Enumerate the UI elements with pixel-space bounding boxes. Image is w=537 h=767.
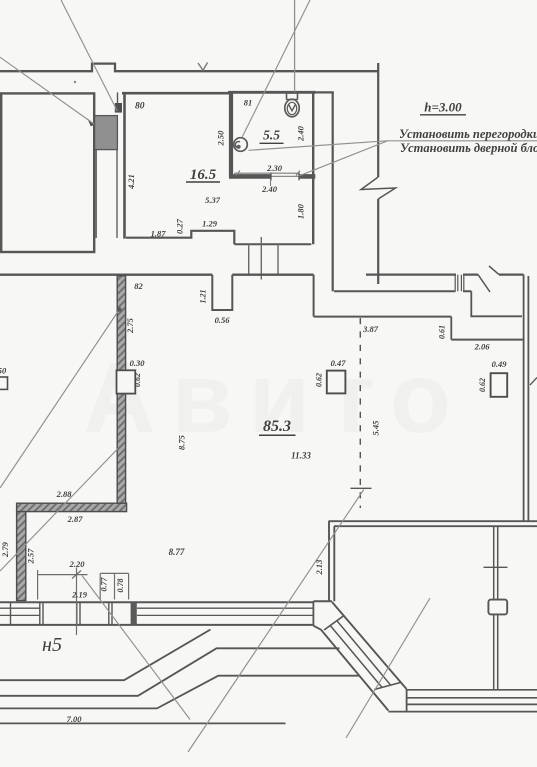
room 16.5 bottom wall with step	[126, 231, 234, 244]
text leader shelf	[387, 140, 537, 142]
step line P4 bottom	[0, 722, 286, 724]
right exterior wall double	[524, 275, 529, 521]
thick hatched wall vertical lower left	[17, 512, 26, 601]
dim line 2.30	[234, 171, 300, 176]
svg-text:2.75: 2.75	[125, 317, 135, 334]
svg-text:1.21: 1.21	[199, 290, 208, 304]
leader to sink from top	[242, 0, 310, 137]
svg-text:5.45: 5.45	[371, 420, 381, 436]
svg-text:3.87: 3.87	[362, 324, 379, 334]
dim bracket left tick	[37, 570, 39, 600]
svg-text:Установить дверной блок: Установить дверной блок	[400, 141, 537, 155]
leader text to sink	[249, 141, 388, 151]
interior partition break tick	[484, 566, 508, 568]
mullion solid block	[131, 602, 137, 625]
svg-text:80: 80	[135, 102, 145, 112]
toilet bowl inner	[287, 102, 296, 114]
svg-text:0.27: 0.27	[175, 218, 185, 234]
toilet bowl	[285, 99, 299, 117]
svg-text:Установить перегородки: Установить перегородки	[399, 127, 537, 141]
svg-text:0.62: 0.62	[478, 378, 487, 392]
wall channel lines	[96, 150, 117, 238]
svg-text:1.80: 1.80	[296, 203, 306, 219]
svg-text:2.06: 2.06	[474, 341, 491, 351]
dim cross tick	[72, 568, 81, 636]
svg-text:2.30: 2.30	[266, 163, 283, 173]
svg-text:7.00: 7.00	[67, 714, 83, 724]
step line P1	[0, 630, 211, 681]
note underline	[420, 114, 466, 116]
svg-text:0.56: 0.56	[215, 315, 231, 325]
leader dot on wall	[117, 307, 122, 312]
svg-text:11.33: 11.33	[291, 451, 311, 461]
svg-text:0.47: 0.47	[331, 358, 347, 368]
bay lower cut line	[374, 683, 400, 690]
bay upper cut line	[324, 616, 344, 630]
svg-text:2.79: 2.79	[0, 541, 10, 558]
svg-text:2.87: 2.87	[67, 514, 84, 524]
main long wall	[0, 274, 314, 276]
toilet tank	[287, 93, 298, 100]
room 85.3 underline	[259, 434, 296, 436]
svg-text:8.77: 8.77	[169, 547, 185, 557]
right band outer line	[366, 274, 524, 276]
bay diagonal band line1	[332, 602, 407, 689]
svg-text:0.62: 0.62	[133, 373, 142, 387]
svg-text:81: 81	[244, 98, 253, 108]
sink inner mark	[235, 142, 240, 148]
bay diagonal band line3	[330, 626, 382, 688]
left window band outer lines	[0, 602, 313, 625]
leader A steps	[82, 576, 190, 720]
leader to wall from top left 2	[61, 0, 117, 111]
niche 0.56	[212, 275, 232, 310]
wall fill between rooms (dark gray)	[95, 116, 118, 150]
svg-text:2.40: 2.40	[261, 184, 278, 194]
tick on right wall	[530, 378, 537, 386]
bathroom door jamb ticks	[271, 172, 299, 180]
svg-text:2.40: 2.40	[296, 125, 306, 142]
bay lower post end edge	[406, 689, 408, 712]
door block 0.47	[327, 371, 346, 394]
window mullions	[11, 602, 113, 625]
thick hatched wall vertical long	[117, 276, 125, 503]
leader C bottom right	[346, 598, 430, 738]
room 16.5 underline	[186, 181, 220, 183]
top wall inner segment right of bathroom	[316, 91, 334, 93]
partition cross tick	[351, 487, 372, 489]
wall step down right of main wall	[313, 275, 315, 317]
svg-text:1.29: 1.29	[202, 219, 218, 229]
svg-text:2.13: 2.13	[314, 559, 324, 576]
door block 0.30 in hatched wall	[117, 370, 136, 393]
bathroom top wall	[228, 91, 316, 94]
svg-text:85.3: 85.3	[263, 418, 291, 435]
left window band glazing lines	[0, 608, 313, 615]
leader to toilet	[294, 0, 296, 92]
V check mark on top wall	[198, 63, 208, 71]
svg-text:5.5: 5.5	[263, 128, 280, 143]
bottom right room top wall double	[329, 521, 537, 526]
step line P2	[0, 648, 340, 696]
room 5.5 underline	[260, 142, 284, 144]
dashed new partition	[359, 318, 361, 508]
stairs bottom wall	[234, 243, 311, 245]
band opening ticks	[455, 275, 464, 292]
svg-text:2.20: 2.20	[69, 559, 86, 569]
svg-text:н5: н5	[42, 634, 62, 656]
svg-text:0.30: 0.30	[130, 358, 146, 368]
step line P3	[0, 676, 360, 709]
svg-text:16.5: 16.5	[190, 167, 217, 183]
svg-text:0.78: 0.78	[116, 579, 125, 593]
break wall vertical	[377, 63, 379, 284]
svg-text:1.87: 1.87	[151, 228, 167, 238]
leader arrowhead	[87, 118, 94, 126]
door block 0.49	[491, 373, 508, 397]
leader from wall down left 2	[0, 449, 118, 572]
right band break symbol	[478, 266, 499, 292]
band end post edge	[312, 601, 314, 626]
sink bowl	[234, 138, 248, 152]
svg-text:2.19: 2.19	[71, 589, 88, 599]
leader B from partition cross	[188, 490, 364, 753]
dim bracket 2.20 line	[38, 574, 88, 576]
leader text to bathroom door	[299, 141, 387, 176]
svg-text:0.77: 0.77	[100, 577, 109, 592]
bay post top edge	[313, 600, 332, 602]
bay diagonal band line4	[313, 626, 388, 711]
bottom right room left wall double	[329, 521, 334, 601]
svg-text:8.75: 8.75	[177, 434, 187, 450]
svg-text:2.57: 2.57	[26, 548, 36, 565]
room 16.5 top wall	[122, 92, 231, 95]
bathroom bottom wall segments	[229, 174, 315, 179]
door jamb block	[115, 103, 122, 113]
thick hatched wall horizontal 2.88	[17, 503, 127, 511]
leader to wall from top left 1	[0, 57, 94, 124]
stair treads	[249, 237, 278, 280]
svg-text:2.88: 2.88	[56, 489, 73, 499]
break wall zigzag	[361, 177, 396, 199]
svg-text:0.49: 0.49	[492, 359, 508, 369]
top outer wall with pilaster notch	[0, 64, 378, 72]
dim bracket 0.77 0.78	[100, 573, 128, 599]
svg-text:4.21: 4.21	[126, 174, 136, 190]
corridor wall	[332, 92, 334, 291]
wall 3.87	[314, 316, 452, 318]
svg-text:82: 82	[134, 281, 143, 291]
svg-text:50: 50	[0, 366, 7, 376]
bottom window band lines	[388, 690, 537, 712]
svg-text:5.37: 5.37	[205, 195, 221, 205]
door jamb line top	[117, 92, 119, 103]
wall 2.06	[451, 339, 523, 341]
room 16.5 left wall	[123, 93, 126, 238]
step 0.61	[450, 317, 452, 340]
dim tick 2.40	[270, 179, 272, 186]
door block at left edge	[0, 377, 8, 389]
svg-text:0.61: 0.61	[438, 325, 447, 339]
bathroom right wall	[312, 92, 314, 244]
svg-text:h=3.00: h=3.00	[424, 100, 462, 115]
bay diagonal band line2	[337, 621, 391, 685]
speck dot	[74, 81, 76, 83]
right band inner line	[334, 290, 471, 292]
bathroom left wall	[229, 92, 233, 177]
left room	[1, 93, 94, 252]
svg-text:0.62: 0.62	[315, 373, 324, 387]
interior partition vertical double	[494, 526, 498, 689]
leader from wall dot down left	[0, 310, 119, 489]
svg-text:2.50: 2.50	[216, 130, 226, 147]
interior door block	[488, 600, 507, 615]
band step to 316	[471, 291, 522, 316]
bathroom door opening line	[271, 175, 299, 177]
